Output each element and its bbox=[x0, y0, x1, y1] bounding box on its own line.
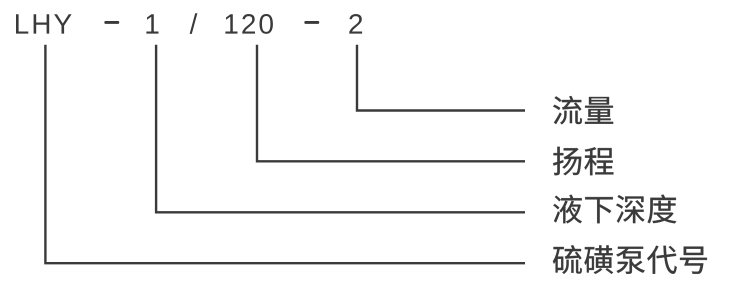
model code token 1 (liquid depth value) bbox=[146, 14, 158, 33]
wire from token 1 to depth label bbox=[156, 45, 525, 213]
model code token LHY bbox=[16, 14, 72, 33]
wire from token 120 to head label bbox=[257, 45, 525, 162]
label 流量 (flow rate) bbox=[553, 96, 613, 124]
model code token 120 (head value) bbox=[225, 14, 273, 34]
model code token 2 (flow value) bbox=[349, 14, 362, 34]
slash separator bbox=[190, 13, 198, 34]
label 液下深度 (liquid depth) bbox=[553, 195, 676, 224]
wire from token LHY to pump-code label bbox=[45, 45, 525, 264]
dash separator 1 bbox=[104, 21, 119, 24]
label 硫磺泵代号 (sulfur pump code) bbox=[553, 245, 707, 274]
label 扬程 (head) bbox=[553, 147, 613, 175]
wire from token 2 to flow label bbox=[357, 45, 525, 111]
dash separator 2 bbox=[304, 21, 319, 24]
